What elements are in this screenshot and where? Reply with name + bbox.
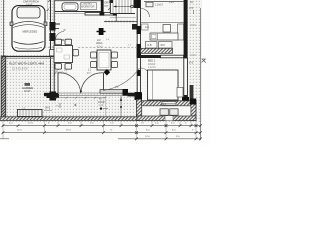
porch step grille	[18, 110, 43, 117]
kitchen wall horizontal	[85, 13, 116, 15]
living table	[97, 50, 111, 70]
dimension extension lines bottom	[3, 121, 201, 140]
bed	[148, 70, 179, 100]
dining chair left	[50, 50, 55, 56]
carport rear wall second line	[2, 58, 54, 60]
stair arrow circle	[131, 5, 134, 8]
svg-text:c.p.: c.p.	[22, 108, 26, 110]
dining table	[54, 46, 73, 63]
svg-text:3.0x3.6: 3.0x3.6	[148, 67, 156, 69]
kitchen sink bowl	[64, 4, 76, 9]
dim ticks row1	[2, 124, 202, 127]
white paper bottom strip	[0, 140, 210, 145]
dim ticks row2	[2, 131, 202, 134]
sliding door arc	[103, 68, 140, 91]
stair side blob	[110, 0, 114, 3]
bedroom window gap	[162, 102, 176, 106]
terrace step exit gap	[165, 116, 173, 121]
dim arrow dot	[120, 106, 122, 108]
bottom dim numbers row0	[9, 123, 187, 125]
dimension line row3 left nub	[0, 138, 9, 140]
dimension line row2	[2, 132, 201, 134]
drainer rect	[81, 3, 97, 10]
svg-text:KIT.: KIT.	[105, 5, 110, 8]
terrace step2	[170, 109, 178, 115]
car windshield arc2	[13, 25, 44, 28]
ground stipple area	[0, 0, 202, 122]
bath hatched wall band	[141, 48, 173, 53]
right wall lower blob	[184, 95, 188, 103]
svg-text:PLOT WIDTH (30FT) 44M: PLOT WIDTH (30FT) 44M	[9, 62, 44, 66]
stair arrow head	[114, 5, 117, 7]
dim ticks row3	[135, 137, 202, 140]
central wall blob mid2	[137, 44, 141, 58]
dining table inner plates	[57, 48, 63, 52]
kitchen counter front line	[55, 11, 101, 13]
terrace right wall	[191, 101, 196, 121]
carport door leaf	[56, 39, 65, 41]
stair flight bottom edge	[110, 13, 135, 15]
car hood curve	[14, 42, 44, 45]
svg-text:shelf: shelf	[169, 2, 174, 4]
entry door arc left	[58, 73, 81, 94]
bath entry door arc	[141, 9, 150, 18]
hall wall nib	[132, 24, 137, 30]
dim arrow vertical	[120, 96, 122, 119]
car roof	[17, 7, 40, 18]
bottom dim numbers row2b	[145, 136, 180, 138]
wall left interior line1	[50, 0, 52, 95]
car windshield arc1	[14, 22, 44, 25]
right wall window double line	[184, 58, 188, 97]
car mirror left	[10, 22, 13, 26]
wall pier 2	[50, 33, 56, 41]
shower stall	[178, 24, 184, 40]
white paper right strip	[202, 0, 210, 145]
label box DB	[146, 42, 158, 49]
central wall blob mid1	[137, 26, 141, 34]
bottom boundary wall	[0, 117, 137, 121]
door meet dot	[80, 90, 82, 92]
bath fixture square	[163, 25, 171, 33]
carport floor	[6, 0, 49, 55]
vanity bowl	[152, 34, 157, 39]
svg-text:24'-0: 24'-0	[45, 108, 51, 110]
dining chair bottom2	[65, 64, 72, 70]
bath bottom wall	[141, 55, 161, 58]
terrace step1	[160, 109, 168, 115]
front yard level dot	[100, 107, 102, 109]
entry door leaf right	[103, 73, 105, 94]
svg-text:2.1 4.5 1.8 0.9: 2.1 4.5 1.8 0.9	[12, 68, 28, 71]
ceiling dashed line	[78, 47, 136, 49]
stair direction arrow	[114, 6, 132, 8]
living chair L1	[91, 52, 97, 58]
dimension line row3 partial	[118, 138, 201, 140]
svg-text:MERCEDES: MERCEDES	[23, 30, 38, 34]
svg-text:10'x8': 10'x8'	[24, 90, 31, 93]
landing nosing ticks	[106, 20, 133, 22]
hall door swing lower	[55, 69, 63, 77]
terrace bottom wall hatch	[136, 116, 196, 121]
svg-text:475: 475	[189, 7, 194, 10]
svg-text:WORKTOP: WORKTOP	[81, 5, 95, 9]
stair side connector	[115, 14, 117, 22]
column diamond	[104, 69, 111, 76]
right ruler tick b	[190, 54, 196, 56]
carport inner dim tick	[47, 9, 49, 11]
carport rear wall	[2, 56, 54, 58]
car mirror right	[44, 22, 47, 26]
terrace inner band	[142, 106, 191, 116]
living chair L2	[91, 62, 97, 68]
living table inner	[99, 53, 109, 68]
ceiling dashed line left	[44, 47, 56, 49]
car front bumper	[15, 48, 42, 50]
kitchen counter depth line	[55, 13, 85, 15]
wall left interior line2	[53, 0, 55, 95]
living chair R2	[112, 62, 118, 68]
bath small box	[142, 24, 149, 30]
central wall blob top	[137, 0, 141, 8]
dining chair top2	[65, 39, 72, 45]
dimension line row1	[2, 125, 201, 127]
bath vanity counter	[150, 33, 178, 40]
living chair R1	[112, 52, 118, 58]
svg-text:1:10: 1:10	[99, 104, 104, 107]
bath top line	[144, 1, 184, 3]
dining chair bottom1	[55, 64, 62, 70]
top counter edge	[55, 0, 101, 2]
stair left wall line	[109, 0, 111, 14]
svg-text:4.5x3: 4.5x3	[97, 45, 104, 48]
kitchen sink	[62, 3, 78, 11]
sliding door cap	[123, 89, 129, 96]
level marker line	[103, 108, 108, 110]
carport inner dim line	[47, 0, 49, 20]
stair landing edge	[104, 21, 137, 23]
bath top small rect1	[146, 2, 153, 7]
dining chair right	[73, 50, 78, 56]
garden label block	[25, 83, 31, 86]
yard small cross	[74, 104, 76, 106]
bottom dim numbers row1b	[17, 130, 194, 132]
central wall vertical double line	[137, 0, 140, 97]
vanity divider	[157, 33, 159, 40]
entry wall right segment	[128, 93, 138, 97]
right wall corner blob	[182, 97, 189, 104]
right dim tick mid	[202, 59, 207, 63]
column tick marks	[97, 31, 106, 33]
wall pier corner plus	[50, 92, 57, 101]
interior floor kitchen dining hall	[56, 0, 137, 93]
right wall vertical upper	[184, 0, 188, 58]
dining chair top1	[55, 39, 62, 45]
right property boundary line	[200, 8, 202, 140]
interior floor bedroom	[141, 58, 184, 101]
bedroom bottom wall	[136, 101, 196, 106]
stair treads	[113, 0, 131, 13]
svg-text:20'-0: 20'-0	[17, 130, 23, 132]
stair newel block	[134, 0, 139, 8]
svg-text:8'-0: 8'-0	[189, 62, 194, 65]
bedroom door arc	[141, 68, 151, 78]
terrace right corner blob	[190, 99, 196, 105]
nightstand	[177, 88, 183, 98]
left property boundary line	[3, 0, 5, 118]
grille slats	[20, 110, 38, 116]
porch dim line	[55, 97, 106, 99]
sliding door bar	[100, 90, 127, 94]
central wall blob mid3	[137, 70, 141, 76]
entry door arc right	[81, 73, 104, 94]
svg-text:1.2x0.5: 1.2x0.5	[155, 3, 164, 6]
wall pier 1	[50, 22, 56, 31]
stair mid line	[110, 17, 136, 19]
bath divider line	[141, 21, 184, 23]
carport door swing	[56, 32, 65, 41]
right ruler tick a	[190, 24, 196, 26]
top dim ticks	[48, 0, 110, 10]
downpipe bar	[190, 85, 194, 104]
car body	[12, 6, 45, 52]
bed headboard line	[152, 70, 154, 100]
right dim ruler	[193, 10, 195, 14]
svg-text:D.B: D.B	[148, 44, 152, 47]
svg-text:W.C: W.C	[161, 44, 166, 47]
entry threshold lines	[58, 92, 133, 94]
small mark left yard	[59, 103, 61, 108]
kitchen wall vertical	[101, 0, 104, 14]
terrace left corner blob	[136, 93, 142, 100]
terrace left wall	[136, 93, 141, 121]
label box WC	[159, 42, 173, 49]
stair well floor	[110, 0, 137, 14]
entry door leaf left	[57, 73, 59, 94]
interior floor bath	[141, 0, 183, 55]
porch dim ticks	[56, 97, 105, 99]
porch vertical ext line	[105, 96, 107, 116]
column plus symbol	[99, 28, 104, 35]
svg-text:10'-6: 10'-6	[28, 123, 34, 125]
svg-text:w.m: w.m	[145, 27, 149, 29]
entry wall left segment	[44, 93, 58, 96]
svg-text:10'x12': 10'x12'	[148, 63, 156, 66]
central wall corner blob	[135, 92, 142, 100]
svg-text:29'-6: 29'-6	[66, 130, 72, 132]
left boundary hatched fence	[1, 56, 6, 118]
svg-text:14'-6: 14'-6	[145, 136, 151, 138]
dim arrowhead	[120, 97, 122, 101]
